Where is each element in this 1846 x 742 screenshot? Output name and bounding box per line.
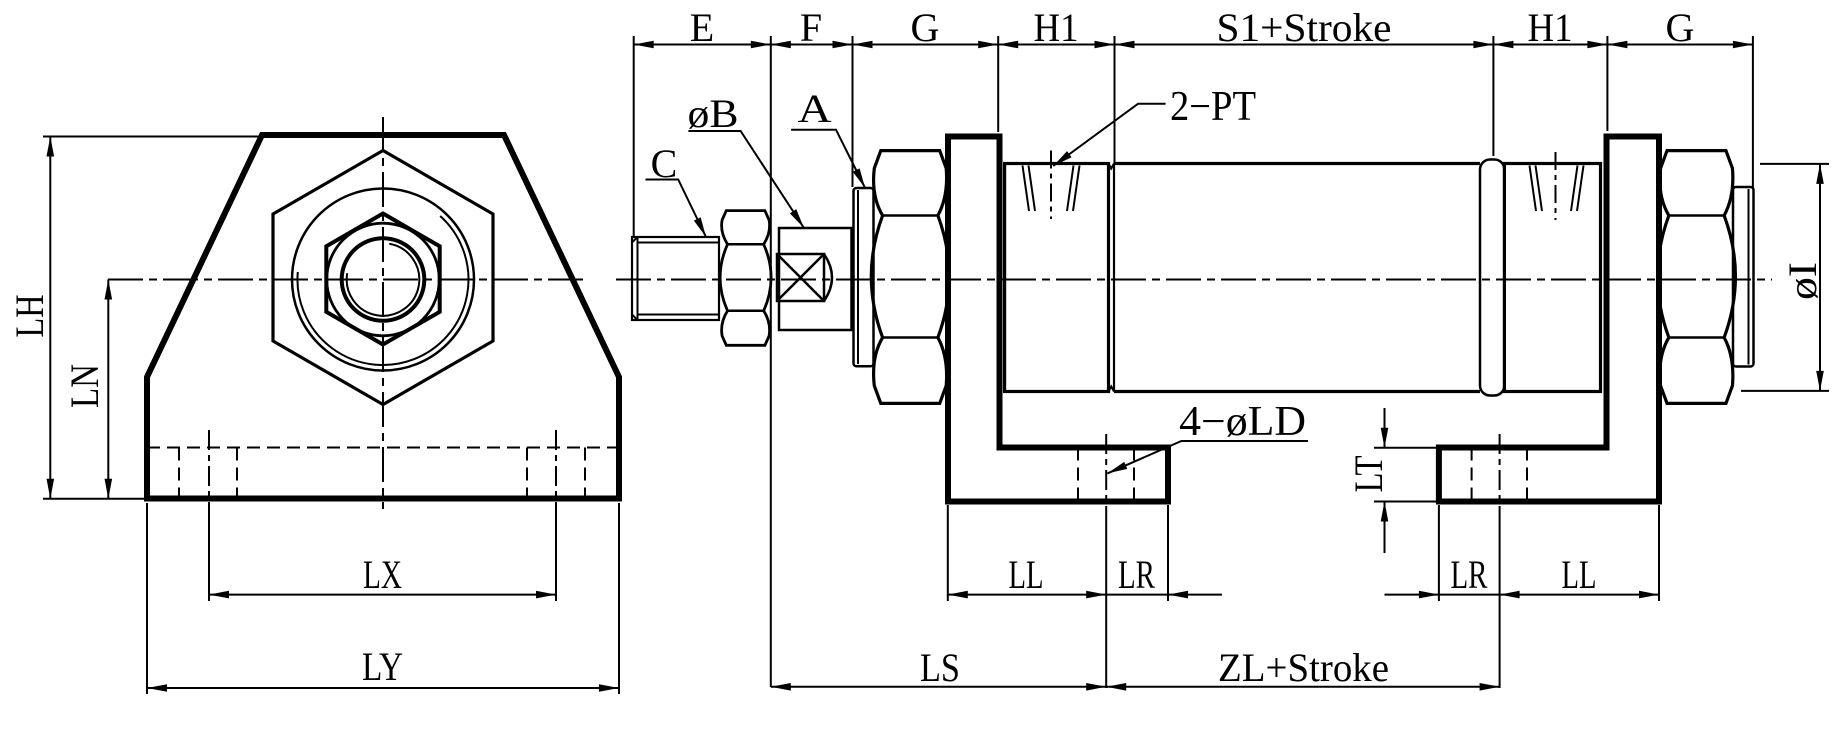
svg-text:G: G: [911, 5, 940, 50]
svg-text:4−øLD: 4−øLD: [1179, 399, 1306, 445]
svg-text:LS: LS: [920, 645, 960, 690]
svg-text:C: C: [651, 141, 678, 186]
svg-text:øB: øB: [688, 91, 739, 136]
svg-text:G: G: [1666, 5, 1695, 50]
svg-text:LR: LR: [1451, 552, 1488, 597]
svg-text:LY: LY: [362, 644, 403, 689]
svg-text:E: E: [690, 5, 714, 50]
svg-text:LX: LX: [363, 552, 402, 597]
svg-text:LN: LN: [62, 364, 107, 408]
svg-text:F: F: [800, 5, 822, 50]
svg-text:LT: LT: [1346, 456, 1391, 493]
svg-text:ZL+Stroke: ZL+Stroke: [1218, 645, 1389, 690]
svg-text:LH: LH: [7, 295, 52, 338]
svg-text:H1: H1: [1528, 5, 1573, 50]
svg-text:2−PT: 2−PT: [1170, 84, 1256, 130]
svg-text:S1+Stroke: S1+Stroke: [1217, 5, 1392, 50]
svg-text:LR: LR: [1118, 552, 1155, 597]
svg-text:A: A: [798, 86, 832, 131]
svg-text:LL: LL: [1562, 552, 1597, 597]
svg-text:LL: LL: [1009, 552, 1044, 597]
svg-text:H1: H1: [1034, 5, 1079, 50]
svg-text:øI: øI: [1780, 262, 1825, 300]
